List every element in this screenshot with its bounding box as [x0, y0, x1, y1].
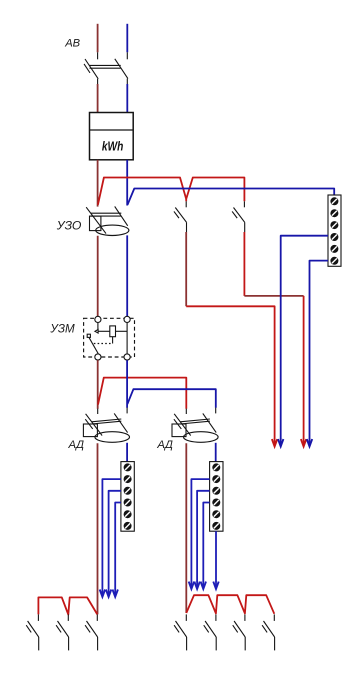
- UZM internal relay coil and contact: [87, 323, 127, 354]
- breaker MCB left #2: [56, 614, 68, 650]
- relay UZM dashed enclosure: [84, 318, 135, 357]
- wire N branch from XT1 at y=490.8: [109, 491, 121, 589]
- RCBO AD1: [83, 408, 129, 443]
- wire N UZM down: [126, 360, 128, 408]
- svg-text:УЗМ: УЗМ: [49, 323, 75, 336]
- wire L pole A vertical: [185, 232, 187, 306]
- label UZM: [49, 323, 75, 336]
- wire L pole B horizontal: [244, 295, 303, 297]
- arrow N branch down: [189, 581, 194, 589]
- svg-text:АВ: АВ: [64, 38, 80, 50]
- terminal strip XT1 (below AD1): [121, 462, 134, 532]
- wire L breaker to meter: [97, 84, 99, 113]
- wire L pole A to feeder pair1: [186, 306, 274, 439]
- arrow L pair2: [301, 439, 306, 447]
- wire N AD1 to terminal strip XT1: [126, 443, 128, 462]
- arrow L pair1: [272, 439, 277, 447]
- wire L AD2 down to right MCB group: [185, 443, 187, 613]
- breaker pole A (x=186): [174, 201, 187, 232]
- circuit breaker AB (2P): [84, 52, 128, 84]
- wire N tap diag to AD2: [127, 389, 215, 408]
- wire N pair2 from strip: [310, 261, 329, 440]
- arrow N branch down: [194, 581, 199, 589]
- wire N branch from XT1 at y=479.1: [102, 479, 121, 589]
- svg-text:kWh: kWh: [102, 138, 124, 153]
- arrow N pair1: [278, 439, 283, 447]
- wire L UZO to UZM: [97, 236, 99, 316]
- wire N branch from XT1 at y=502.5: [115, 503, 121, 590]
- svg-text:АД: АД: [156, 439, 173, 451]
- breaker MCB right #4: [262, 614, 274, 650]
- label AD (right RCBO): [156, 439, 173, 451]
- wire N pair1 from strip: [281, 236, 328, 440]
- wire N AD2 to terminal strip XT2: [215, 443, 217, 462]
- breaker pole B (x=244): [232, 201, 245, 232]
- wire N branch from XT2 at y=479.1: [191, 479, 209, 581]
- wire L bus bottom-right: [186, 595, 274, 614]
- wire N bus to terminal strip: [128, 189, 335, 205]
- arrow N branch down: [106, 589, 111, 597]
- breaker MCB left #3: [85, 614, 97, 650]
- arrow N branch down: [201, 581, 206, 589]
- arrow N XT2 bottom: [213, 581, 218, 589]
- wire L tap stub pole A: [185, 199, 187, 201]
- UZM terminal in L: [95, 316, 101, 322]
- kWh meter: [90, 113, 134, 160]
- RCD UZO (2P with differential transformer): [86, 206, 129, 235]
- svg-text:УЗО: УЗО: [56, 219, 82, 233]
- UZM terminal out N: [124, 354, 130, 360]
- RCBO AD2: [172, 408, 218, 443]
- UZM terminal out L: [95, 354, 101, 360]
- wire N UZO to UZM: [126, 235, 128, 316]
- label AD (left RCBO): [68, 439, 85, 451]
- wire L feeder from supply: [97, 24, 99, 53]
- wire L bus to pole switches: [98, 178, 245, 205]
- breaker MCB left #1: [26, 614, 38, 650]
- breaker MCB right #2: [204, 614, 216, 650]
- svg-text:АД: АД: [68, 439, 85, 451]
- wire N feeder from supply: [126, 24, 128, 53]
- UZM terminal in N: [124, 316, 130, 322]
- wire L pole B vertical: [243, 232, 245, 296]
- wire L UZM to AD1 terminal: [97, 360, 99, 409]
- terminal strip N (right): [328, 195, 341, 266]
- label AB (input breaker): [64, 38, 80, 50]
- arrow N branch down: [113, 589, 118, 597]
- breaker MCB right #3: [233, 614, 245, 650]
- wire N breaker to meter: [126, 84, 128, 113]
- wire N meter to UZO: [126, 160, 128, 206]
- wire N branch from XT2 at y=490.8: [197, 491, 210, 582]
- breaker MCB right #1: [174, 614, 186, 650]
- terminal strip XT2 (below AD2): [210, 462, 223, 532]
- wire L tap diag to AD bus: [98, 378, 186, 409]
- arrow N pair2: [307, 439, 312, 447]
- wire L pole B to feeder pair2: [303, 296, 305, 440]
- wire L AD1 down to left MCB group: [97, 443, 99, 614]
- wire L bus bottom-left: [38, 597, 97, 614]
- wire N branch from XT2 at y=502.5: [203, 503, 209, 582]
- wire L meter to UZO: [97, 160, 99, 207]
- arrow N branch down: [100, 589, 105, 597]
- label UZO: [56, 219, 82, 233]
- wire N from XT2 bottom: [215, 531, 217, 581]
